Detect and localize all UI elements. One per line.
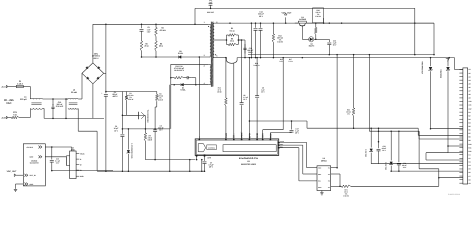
svg-text:68 nF: 68 nF	[382, 148, 386, 150]
svg-text:25 V: 25 V	[209, 166, 213, 168]
svg-text:600 V: 600 V	[94, 57, 99, 59]
svg-text:VR5 SMAJ58A: VR5 SMAJ58A	[421, 61, 423, 74]
svg-text:100 nF: 100 nF	[56, 103, 62, 105]
resistor R21 10 ohm	[331, 185, 340, 187]
svg-text:A7: A7	[469, 90, 471, 92]
current sense loop	[227, 58, 238, 64]
svg-text:VDC_OUT: VDC_OUT	[281, 12, 291, 14]
wire bias riser to gnd	[169, 85, 171, 129]
svg-text:DF06S-G: DF06S-G	[92, 55, 100, 57]
svg-text:D-: D-	[80, 159, 82, 161]
bridge diode top-left	[86, 66, 88, 68]
svg-text:P2: P2	[328, 174, 330, 176]
svg-text:B7: B7	[469, 133, 471, 135]
gate resistor R18 540 ohm	[313, 8, 324, 23]
wire source return bus	[145, 159, 195, 161]
bridge diode bottom-left	[87, 77, 89, 79]
svg-text:6: 6	[216, 55, 217, 57]
X capacitor C10 100nF 275VAC	[52, 99, 54, 106]
svg-text:SCL: SCL	[318, 181, 321, 183]
wire bias left	[170, 64, 172, 84]
svg-text:L2: L2	[73, 89, 75, 91]
svg-text:330 µF: 330 µF	[258, 13, 264, 15]
svg-text:B12: B12	[469, 151, 472, 153]
svg-text:A2: A2	[469, 72, 471, 74]
svg-text:SMAJ58A: SMAJ58A	[440, 69, 442, 78]
svg-text:1: 1	[204, 22, 205, 24]
svg-text:C11: C11	[209, 0, 212, 2]
wire VOUT riser with cap C8	[241, 105, 243, 139]
clamp resistor R2 470k	[155, 24, 157, 27]
wire choke to filter	[43, 98, 68, 100]
port VBUS flag	[446, 58, 449, 61]
svg-text:16 V: 16 V	[114, 130, 118, 132]
svg-text:511 Ω: 511 Ω	[230, 30, 235, 32]
svg-text:1%: 1%	[345, 193, 347, 195]
zener VR3 ESD	[370, 128, 372, 147]
wire BPS bus to right	[306, 121, 308, 128]
bias capacitor C18 220pF	[184, 77, 188, 79]
svg-text:470 kΩ: 470 kΩ	[128, 95, 134, 97]
U3 pin GND in	[25, 183, 27, 186]
svg-text:275 VAC: 275 VAC	[56, 106, 64, 108]
wire SDA to connector	[417, 128, 419, 135]
svg-text:FWD: FWD	[225, 133, 228, 138]
wire bottom rows to connector	[419, 168, 439, 170]
zener VR6 TVS	[447, 58, 449, 67]
U1 top pin stubs	[225, 133, 227, 139]
svg-text:C5: C5	[469, 168, 471, 170]
svg-text:25 V: 25 V	[261, 91, 265, 93]
divider resistor R22 10k	[353, 55, 355, 108]
wire B+ rail	[93, 23, 208, 25]
svg-text:C2: C2	[469, 158, 471, 160]
wire source stub to bus2	[201, 160, 203, 172]
svg-text:A8: A8	[469, 94, 471, 96]
wire bridge plus to bulk rail	[92, 24, 94, 63]
svg-text:680 pF: 680 pF	[248, 50, 254, 52]
svg-text:16 V: 16 V	[333, 44, 337, 46]
wire GND riser with cap C9	[256, 98, 258, 139]
svg-text:R2: R2	[161, 27, 163, 29]
svg-text:16 V: 16 V	[159, 129, 163, 131]
wire R18 top	[323, 18, 325, 23]
capacitor C29 68nF	[398, 131, 400, 162]
svg-text:AO4805: AO4805	[299, 18, 306, 20]
wire SR pin riser	[233, 63, 235, 139]
svg-text:1/16 W: 1/16 W	[277, 41, 283, 43]
svg-text:Q1: Q1	[310, 43, 312, 45]
BPP capacitor C7 4.7uF 25V	[203, 161, 207, 163]
U1 secondary block	[223, 145, 276, 152]
svg-text:1/16 W: 1/16 W	[343, 195, 348, 197]
transistor Q2 line sense	[122, 114, 138, 116]
svg-text:R10 C18: R10 C18	[175, 65, 182, 67]
svg-text:R22: R22	[347, 109, 350, 111]
capacitor C28 68nF	[378, 128, 380, 142]
svg-text:10 Ω: 10 Ω	[344, 191, 348, 193]
U1 BPP pin and label	[204, 155, 206, 161]
svg-text:R3: R3	[231, 28, 233, 30]
svg-text:C12: C12	[259, 11, 262, 13]
svg-text:D+: D+	[80, 164, 82, 166]
feedback resistor R13 487k	[272, 23, 274, 34]
svg-text:U1: U1	[247, 161, 250, 163]
svg-text:40 Ω: 40 Ω	[230, 40, 234, 42]
wire Q4 gate	[301, 26, 303, 40]
ground symbol DCDC	[15, 184, 17, 189]
svg-text:16 V: 16 V	[56, 162, 60, 164]
svg-text:B5: B5	[469, 126, 471, 128]
bias resistor R10 47 ohm	[171, 77, 175, 79]
U2 ground	[321, 191, 323, 193]
svg-text:PI-8932-032119: PI-8932-032119	[448, 193, 460, 195]
svg-text:330 µH: 330 µH	[20, 98, 26, 100]
svg-text:R3: R3	[159, 93, 161, 95]
svg-text:A3: A3	[469, 76, 471, 78]
svg-text:R18: R18	[316, 10, 319, 12]
svg-text:InnoSwitch3-Pro: InnoSwitch3-Pro	[239, 157, 258, 160]
svg-text:3: 3	[204, 55, 205, 57]
wire FWD pin riser with resistor R12	[225, 106, 227, 139]
svg-text:A11: A11	[469, 104, 472, 106]
svg-text:R14: R14	[255, 62, 258, 64]
wire secondary return bus	[213, 57, 226, 59]
svg-text:1/8 W: 1/8 W	[148, 139, 153, 141]
capacitor C6 100nF	[250, 23, 252, 58]
svg-text:+5V BUS: +5V BUS	[26, 147, 33, 149]
svg-text:D1: D1	[182, 87, 184, 89]
svg-text:1 µF: 1 µF	[295, 130, 299, 132]
svg-text:GND: GND	[80, 176, 84, 178]
svg-text:B2: B2	[469, 115, 471, 117]
svg-text:0.060 Ω: 0.060 Ω	[254, 64, 260, 66]
svg-text:U2: U2	[323, 158, 325, 160]
wire sense bus	[248, 54, 434, 56]
svg-text:VAC: VAC	[6, 102, 11, 105]
svg-text:90 - 265: 90 - 265	[4, 99, 14, 102]
svg-text:C9: C9	[262, 87, 264, 89]
svg-text:A12: A12	[469, 108, 472, 110]
svg-text:487 kΩ: 487 kΩ	[277, 37, 283, 39]
wire clamp bottom	[142, 56, 178, 58]
svg-text:C4: C4	[160, 125, 162, 127]
svg-text:C13: C13	[333, 40, 336, 42]
svg-text:0.1 µF: 0.1 µF	[55, 160, 60, 162]
svg-text:P1: P1	[328, 167, 330, 169]
svg-text:VBUS: VBUS	[80, 153, 84, 155]
svg-text:B3: B3	[469, 119, 471, 121]
wire 5V to USB	[52, 146, 72, 148]
svg-text:A5: A5	[469, 83, 471, 85]
wire riser x369	[368, 55, 370, 132]
svg-text:1 µF: 1 µF	[261, 89, 264, 91]
svg-text:BR1: BR1	[94, 53, 98, 55]
svg-text:C8: C8	[469, 179, 471, 181]
svg-text:1%: 1%	[279, 39, 282, 41]
wire Y line down to bus	[414, 8, 416, 23]
svg-text:GND: GND	[30, 156, 34, 158]
svg-text:7%: 7%	[129, 97, 131, 99]
svg-text:SCL: SCL	[280, 146, 283, 148]
svg-text:S1WL: S1WL	[178, 52, 183, 54]
svg-text:47 Ω: 47 Ω	[217, 89, 221, 91]
svg-text:1/10 W: 1/10 W	[158, 99, 163, 101]
svg-text:VR3 5.6 V: VR3 5.6 V	[365, 149, 367, 157]
svg-text:Q4: Q4	[301, 16, 303, 18]
wire zener row to connector	[371, 163, 463, 165]
svg-text:C17: C17	[295, 128, 298, 130]
wire bias top	[171, 63, 209, 65]
DC-DC converter module U3	[23, 144, 45, 186]
U2 right pin wires	[331, 167, 337, 169]
svg-text:B8: B8	[469, 136, 471, 138]
line sense rail	[106, 91, 157, 93]
svg-text:R17: R17	[289, 59, 292, 61]
wire connector gnd rows	[431, 128, 463, 130]
clamp resistor R6	[140, 41, 143, 51]
svg-text:C28: C28	[382, 146, 385, 148]
svg-text:16 V: 16 V	[403, 167, 407, 169]
svg-text:HMC0603NT-SL: HMC0603NT-SL	[147, 110, 149, 123]
svg-text:P4: P4	[328, 187, 330, 189]
wire bridge AC2	[104, 72, 106, 74]
svg-text:BPS: BPS	[248, 133, 251, 138]
svg-text:B9: B9	[469, 140, 471, 142]
svg-text:DC/DC: DC/DC	[31, 160, 37, 162]
svg-text:1 µF: 1 µF	[333, 42, 337, 44]
svg-text:uVCC: uVCC	[280, 141, 284, 143]
wire SDA riser	[262, 130, 264, 139]
svg-text:400 V: 400 V	[113, 96, 118, 98]
bulk capacitor C1 68uF 400V	[105, 24, 107, 93]
svg-text:B4: B4	[469, 122, 471, 124]
svg-text:5 Ω: 5 Ω	[13, 114, 16, 116]
wire Y-cap branch	[194, 8, 196, 24]
transformer tap wire	[214, 39, 227, 41]
svg-text:4.7 µF: 4.7 µF	[208, 164, 213, 166]
svg-text:MP802: MP802	[321, 160, 327, 162]
svg-text:25 V: 25 V	[243, 99, 247, 101]
svg-text:R6: R6	[145, 43, 147, 45]
svg-text:7.5 Ω: 7.5 Ω	[148, 137, 152, 139]
U1 CONTROL block	[207, 145, 217, 150]
connector J2 card edge	[463, 68, 468, 184]
resistor R7 bias	[144, 129, 146, 133]
svg-text:B11: B11	[469, 147, 472, 149]
svg-text:100 nF: 100 nF	[158, 127, 164, 129]
svg-text:47 Ω 220 pF: 47 Ω 220 pF	[174, 67, 184, 69]
capacitor C4 100nF	[154, 128, 156, 131]
wire snubber to C14	[238, 39, 245, 41]
svg-text:GND: GND	[30, 183, 34, 185]
svg-text:B10: B10	[469, 144, 472, 146]
svg-text:C7: C7	[469, 175, 471, 177]
svg-text:2: 2	[204, 65, 205, 67]
svg-text:470 kΩ: 470 kΩ	[157, 95, 163, 97]
svg-text:CONTROL: CONTROL	[208, 147, 215, 149]
clamp capacitor C5 1nF 1kV	[141, 24, 143, 28]
wire SCL bus	[369, 130, 419, 132]
svg-text:A1: A1	[469, 69, 471, 71]
capacitor C17 1uF 25V	[291, 121, 293, 130]
U1 primary FET symbol	[198, 144, 205, 152]
svg-text:C5: C5	[147, 27, 149, 29]
svg-text:20 mH: 20 mH	[71, 91, 77, 93]
capacitor C15 100nF 16V	[51, 146, 53, 148]
wire secondary positive rail	[213, 22, 434, 24]
svg-text:B6: B6	[469, 129, 471, 131]
snubber capacitor C14 680pF	[244, 44, 246, 48]
IC U2 microcontroller MP802	[317, 166, 331, 191]
svg-text:100 V: 100 V	[248, 52, 253, 54]
svg-text:A4: A4	[469, 80, 471, 82]
svg-text:5: 5	[216, 22, 217, 24]
wire gnd bus to connector pin1	[434, 57, 455, 59]
svg-text:C9: C9	[469, 183, 471, 185]
bridge diode top-right	[98, 66, 100, 68]
svg-text:68 nF: 68 nF	[402, 165, 406, 167]
svg-text:1 kV: 1 kV	[147, 31, 151, 33]
zener VR2 1N5251B	[127, 129, 129, 150]
svg-text:USB: USB	[71, 149, 75, 151]
svg-text:R5: R5	[231, 38, 233, 40]
svg-text:20 Ω: 20 Ω	[144, 45, 148, 47]
transformer core	[210, 22, 212, 87]
svg-text:GND: GND	[318, 187, 321, 189]
svg-text:10 kΩ: 10 kΩ	[346, 111, 351, 113]
svg-text:BPP: BPP	[208, 157, 212, 159]
svg-text:P3: P3	[328, 181, 330, 183]
svg-text:1/10 W: 1/10 W	[128, 99, 133, 101]
wire drain	[198, 57, 200, 139]
svg-text:1 nF: 1 nF	[147, 29, 151, 31]
svg-text:S1WL: S1WL	[180, 89, 185, 91]
svg-text:C4: C4	[469, 165, 471, 167]
svg-text:4: 4	[204, 83, 205, 85]
svg-text:7%: 7%	[317, 14, 319, 16]
wire U2 to bus riser	[336, 55, 338, 168]
svg-text:J4: J4	[72, 147, 74, 149]
wire primary gnd bus	[97, 170, 204, 172]
svg-text:Converter: Converter	[30, 162, 39, 164]
svg-text:0.5 Ω: 0.5 Ω	[279, 61, 283, 63]
svg-text:25 V: 25 V	[295, 132, 299, 134]
svg-text:BAV70: BAV70	[309, 45, 315, 47]
svg-text:VDC_IN: VDC_IN	[30, 175, 36, 177]
wire rail down to bus	[433, 23, 435, 54]
svg-text:C7: C7	[210, 162, 212, 164]
svg-text:R8: R8	[160, 43, 162, 45]
svg-text:A9: A9	[469, 97, 471, 99]
IC U1 InnoSwitch3-Pro INN3370C-H302	[195, 139, 279, 156]
svg-text:D5: D5	[179, 50, 181, 52]
U1 right pin wires	[279, 142, 307, 144]
svg-text:C3: C3	[469, 161, 471, 163]
svg-text:C6: C6	[469, 172, 471, 174]
svg-text:A6: A6	[469, 87, 471, 89]
svg-text:10 µF: 10 µF	[114, 128, 119, 130]
resistor R3 470k line sense lower	[156, 92, 158, 95]
wire primary return routing	[78, 130, 97, 132]
output capacitor C16 220uF	[255, 23, 257, 28]
svg-text:R12: R12	[218, 87, 221, 89]
zener VR4 ESD	[390, 131, 392, 160]
wire gnd stub	[51, 168, 53, 171]
svg-text:VDC_OUT: VDC_OUT	[7, 170, 17, 172]
svg-text:J1-B: J1-B	[1, 117, 6, 119]
svg-text:VDD: VDD	[318, 167, 321, 169]
wire bias to BPP	[170, 85, 172, 129]
gate capacitor C13 1uF 16V	[328, 39, 330, 42]
wire SCL riser to C17 ground	[269, 133, 271, 139]
svg-text:540 Ω: 540 Ω	[316, 12, 321, 14]
svg-text:R1: R1	[129, 93, 131, 95]
svg-text:B1: B1	[469, 112, 471, 114]
svg-text:16 V: 16 V	[382, 150, 386, 152]
resistor R1 470k line sense	[125, 95, 128, 100]
svg-text:VR4 5.6 V: VR4 5.6 V	[385, 162, 387, 170]
U1 source pin	[196, 155, 198, 159]
svg-text:5.1 Ω: 5.1 Ω	[288, 61, 292, 63]
svg-text:SDA: SDA	[318, 174, 321, 176]
wire L2 to bridge	[78, 98, 82, 100]
svg-text:C2: C2	[115, 126, 117, 128]
U1 drain pin	[198, 136, 200, 139]
svg-text:1/8 W: 1/8 W	[217, 91, 222, 93]
clamp diode D5 S1WL	[179, 56, 182, 59]
svg-text:68 µF: 68 µF	[113, 93, 118, 95]
bridge diode bottom-right	[97, 77, 99, 79]
svg-text:R15: R15	[280, 59, 283, 61]
svg-text:7%: 7%	[159, 97, 161, 99]
svg-text:C8: C8	[243, 95, 245, 97]
svg-text:1 nF: 1 nF	[209, 2, 213, 4]
U3 pin VDC_IN	[25, 174, 27, 177]
svg-text:INN3370C-H302: INN3370C-H302	[241, 163, 256, 165]
wire SDA bus	[307, 127, 418, 129]
wire SCL to connector	[418, 131, 420, 139]
svg-text:C10: C10	[58, 101, 62, 103]
svg-text:J1-A: J1-A	[1, 86, 6, 88]
zener VR5 TVS	[430, 58, 432, 67]
svg-text:R13: R13	[278, 35, 281, 37]
svg-text:1.2 µF: 1.2 µF	[243, 97, 248, 99]
svg-text:F1: F1	[19, 81, 21, 83]
wire bias rail	[122, 128, 169, 130]
svg-text:+: +	[101, 92, 102, 94]
svg-text:C15: C15	[56, 158, 59, 160]
svg-text:C1: C1	[469, 154, 471, 156]
svg-text:1/16 W: 1/16 W	[315, 16, 320, 18]
clamp resistor R8	[155, 41, 158, 51]
svg-text:R7: R7	[149, 135, 151, 137]
svg-text:A10: A10	[469, 101, 472, 103]
wire fuse to choke	[23, 86, 30, 88]
svg-text:SDA: SDA	[280, 144, 283, 146]
wire BPS riser	[248, 58, 250, 139]
svg-text:R21: R21	[344, 189, 347, 191]
svg-text:25 V: 25 V	[259, 15, 263, 17]
svg-text:1/8 W 200 V: 1/8 W 200 V	[174, 70, 184, 72]
svg-text:VR2 1N5251B 22 V: VR2 1N5251B 22 V	[131, 143, 133, 158]
svg-text:600 VAC: 600 VAC	[207, 12, 214, 14]
svg-text:3.15 A: 3.15 A	[17, 83, 23, 85]
svg-text:L1: L1	[24, 96, 26, 98]
U1 pin pads	[225, 139, 227, 141]
wire bridge minus down	[92, 84, 94, 119]
svg-text:470 kΩ: 470 kΩ	[159, 29, 165, 31]
